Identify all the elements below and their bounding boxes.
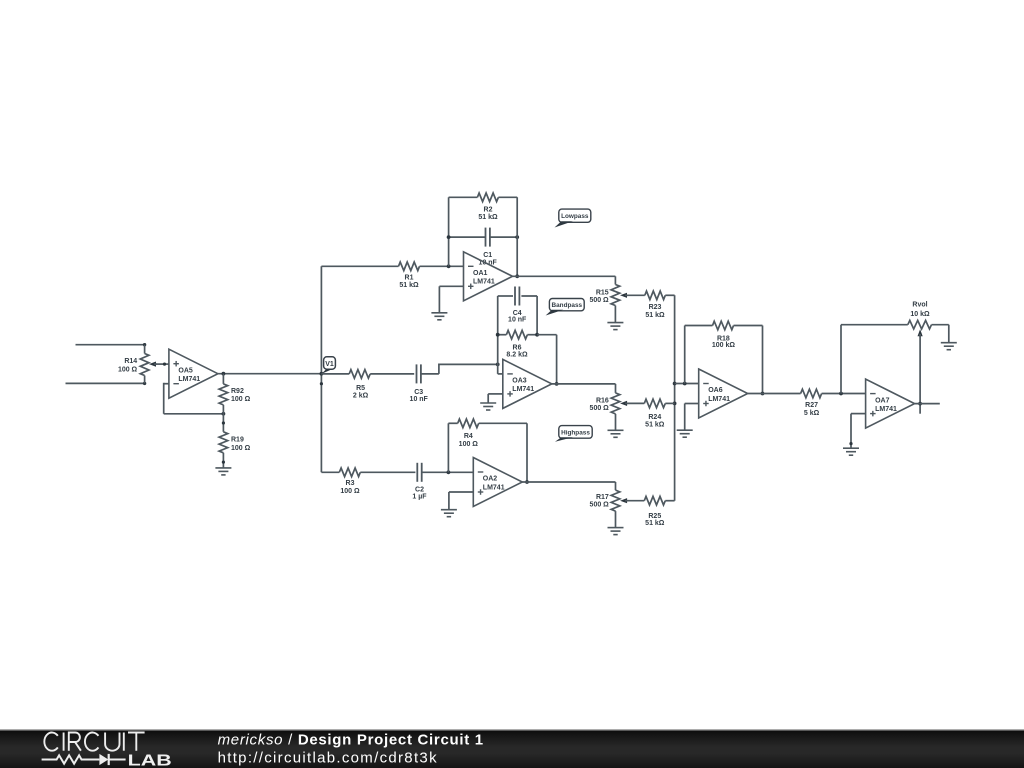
svg-text:100 Ω: 100 Ω <box>459 441 479 448</box>
potentiometer R14 <box>118 345 157 384</box>
svg-text:100 Ω: 100 Ω <box>231 445 251 452</box>
ground R17 <box>608 528 624 535</box>
ground OA3 <box>480 403 496 410</box>
wire input bottom <box>66 382 147 385</box>
svg-text:R16: R16 <box>596 398 609 405</box>
svg-text:100 Ω: 100 Ω <box>231 396 251 403</box>
op-amp OA3 <box>503 359 552 408</box>
svg-text:10 nF: 10 nF <box>508 317 527 324</box>
svg-text:OA5: OA5 <box>178 367 193 374</box>
resistor R6 <box>496 330 539 358</box>
svg-text:500 Ω: 500 Ω <box>589 297 609 304</box>
wire R17 wiper to R25 <box>627 500 644 502</box>
svg-text:R24: R24 <box>648 414 661 421</box>
op-amp OA1 <box>464 252 513 301</box>
wire OA5 output <box>218 372 322 376</box>
wire OA5 - feedback <box>164 383 226 416</box>
svg-text:C3: C3 <box>414 389 423 396</box>
wire OA1 + to ground <box>439 286 463 313</box>
wire R27 to OA7 - <box>822 392 866 396</box>
wire R23 to bus <box>665 294 674 296</box>
wire R6 to OA3 output <box>537 335 558 386</box>
svg-text:R19: R19 <box>231 437 244 444</box>
ground OA6 <box>677 430 693 437</box>
wire feedback left vertical OA2 <box>447 423 449 472</box>
svg-text:51 kΩ: 51 kΩ <box>645 312 665 319</box>
wire OA3 output <box>552 384 616 393</box>
resistor R25 <box>644 496 665 527</box>
potentiometer R16 <box>590 393 629 430</box>
label Highpass <box>555 426 592 442</box>
potentiometer Rvol <box>841 302 949 338</box>
svg-text:OA6: OA6 <box>708 387 723 394</box>
svg-text:500 Ω: 500 Ω <box>590 502 610 509</box>
ground OA2 <box>441 510 457 517</box>
wire OA6 + to ground <box>685 404 699 431</box>
wire Rvol left vertical <box>840 325 842 394</box>
label Bandpass <box>546 299 585 316</box>
wire R1 to OA1 - <box>420 264 464 268</box>
svg-text:OA7: OA7 <box>875 397 890 404</box>
wire OA7 output <box>915 403 940 405</box>
wire C4 right vertical <box>536 296 538 335</box>
svg-text:10 kΩ: 10 kΩ <box>910 311 930 318</box>
wire bus to OA6 - <box>675 382 699 386</box>
svg-text:LM741: LM741 <box>473 279 495 286</box>
svg-text:R4: R4 <box>464 433 473 440</box>
ground OA1 <box>431 313 447 320</box>
wire R25 to bus <box>665 500 674 502</box>
svg-text:LM741: LM741 <box>512 386 534 393</box>
wire R15 wiper to R23 <box>627 294 645 296</box>
wire R24 to bus <box>665 402 674 404</box>
wire V1 to R1 <box>321 265 398 267</box>
svg-text:R23: R23 <box>649 304 662 311</box>
svg-text:R14: R14 <box>124 358 137 365</box>
label Lowpass <box>555 209 591 227</box>
wire OA3 + to ground <box>488 394 503 403</box>
wire C2 to OA2 - <box>422 470 474 474</box>
svg-text:LM741: LM741 <box>178 376 200 383</box>
CircuitLab logo LAB <box>128 753 172 768</box>
svg-text:100 Ω: 100 Ω <box>118 367 138 374</box>
potentiometer R15 <box>589 285 628 323</box>
wire Rvol right to ground <box>948 325 950 343</box>
svg-text:R1: R1 <box>405 275 414 282</box>
op-amp OA5 <box>169 349 218 398</box>
wire Rvol wiper to output <box>918 334 922 414</box>
resistor R2 <box>449 193 518 221</box>
resistor R5 <box>349 370 370 400</box>
svg-text:C2: C2 <box>415 486 424 493</box>
svg-text:R17: R17 <box>596 494 609 501</box>
resistor R18 <box>685 321 763 349</box>
svg-text:Highpass: Highpass <box>561 429 590 436</box>
capacitor C4 <box>498 287 537 324</box>
resistor R4 <box>448 419 527 448</box>
wire R3 to C2 <box>360 471 415 473</box>
svg-text:merickso / Design Project Circ: merickso / Design Project Circuit 1 <box>218 731 484 748</box>
bottom title bar <box>0 729 1024 768</box>
svg-text:R27: R27 <box>805 402 818 409</box>
title text <box>218 731 484 748</box>
svg-text:500 Ω: 500 Ω <box>590 405 610 412</box>
svg-text:Rvol: Rvol <box>912 302 927 309</box>
svg-text:LM741: LM741 <box>483 484 505 491</box>
capacitor C2 <box>412 463 427 501</box>
svg-text:LM741: LM741 <box>708 396 730 403</box>
CircuitLab logo resistor-diode glyph <box>42 754 126 765</box>
svg-text:100 Ω: 100 Ω <box>340 488 360 495</box>
wire feedback left vertical OA1 <box>448 197 450 266</box>
svg-text:51 kΩ: 51 kΩ <box>645 520 665 527</box>
svg-text:OA1: OA1 <box>473 270 488 277</box>
svg-text:R15: R15 <box>596 290 609 297</box>
capacitor C3 <box>410 364 429 403</box>
wire feedback right vertical OA1 <box>515 197 519 278</box>
wire bandpass node vertical <box>498 296 503 374</box>
resistor R19 <box>219 414 251 468</box>
op-amp OA6 <box>699 369 748 418</box>
svg-text:R5: R5 <box>356 385 365 392</box>
capacitor C1 <box>447 228 519 267</box>
wire feedback right vertical OA6 <box>761 326 765 396</box>
svg-text:R2: R2 <box>484 207 493 214</box>
CircuitLab logo CIRCUIT <box>44 733 144 751</box>
wire R5 to C3 <box>370 373 414 375</box>
wire R14 wiper to OA5 + <box>156 363 169 366</box>
summing bus <box>673 295 677 500</box>
node V1 bus <box>320 266 324 472</box>
svg-text:LAB: LAB <box>128 753 172 768</box>
ground Rvol <box>941 343 957 350</box>
svg-text:R92: R92 <box>231 388 244 395</box>
svg-text:5 kΩ: 5 kΩ <box>804 410 820 417</box>
svg-text:R3: R3 <box>346 480 355 487</box>
svg-text:LM741: LM741 <box>875 406 897 413</box>
svg-text:1 µF: 1 µF <box>412 493 427 500</box>
wire OA6 output <box>748 393 801 395</box>
ground R15 <box>607 323 623 330</box>
svg-text:51 kΩ: 51 kΩ <box>645 422 665 429</box>
resistor R92 <box>219 374 251 414</box>
node V1 label <box>321 357 335 374</box>
svg-text:10 nF: 10 nF <box>410 396 429 403</box>
wire OA2 output <box>522 482 615 490</box>
wire V1 to R5 <box>321 373 349 375</box>
wire OA1 output <box>513 276 616 284</box>
svg-text:Lowpass: Lowpass <box>561 213 589 220</box>
potentiometer R17 <box>590 490 629 527</box>
wire OA7 + to ground <box>849 414 865 449</box>
op-amp OA2 <box>473 458 522 507</box>
wire input top <box>76 343 147 346</box>
wire feedback right vertical OA2 <box>525 423 529 484</box>
svg-text:Bandpass: Bandpass <box>552 302 583 309</box>
wire V1 to R3 <box>321 471 339 473</box>
resistor R23 <box>645 291 666 319</box>
svg-text:OA3: OA3 <box>512 378 527 385</box>
resistor R1 <box>399 262 420 289</box>
resistor R3 <box>339 468 360 495</box>
ground OA7 <box>843 448 859 455</box>
svg-text:51 kΩ: 51 kΩ <box>478 214 498 221</box>
svg-text:OA2: OA2 <box>483 476 498 483</box>
url text <box>218 750 438 767</box>
svg-text:2 kΩ: 2 kΩ <box>353 393 369 400</box>
ground under R19 <box>215 468 231 475</box>
svg-text:V1: V1 <box>325 361 334 368</box>
wire OA2 + to ground <box>449 492 473 510</box>
svg-text:8.2 kΩ: 8.2 kΩ <box>506 351 528 358</box>
op-amp OA7 <box>866 379 915 428</box>
wire R16 wiper to R24 <box>627 402 644 404</box>
svg-text:http://circuitlab.com/cdr8t3k: http://circuitlab.com/cdr8t3k <box>218 750 438 767</box>
svg-text:51 kΩ: 51 kΩ <box>399 282 419 289</box>
wire C3 to OA3 - <box>421 363 500 374</box>
svg-text:100 kΩ: 100 kΩ <box>712 342 736 349</box>
svg-text:C1: C1 <box>483 252 492 259</box>
wire feedback left vertical OA6 <box>684 326 686 384</box>
resistor R24 <box>644 399 665 429</box>
ground R16 <box>608 430 624 437</box>
svg-text:R25: R25 <box>648 513 661 520</box>
resistor R27 <box>801 389 822 417</box>
